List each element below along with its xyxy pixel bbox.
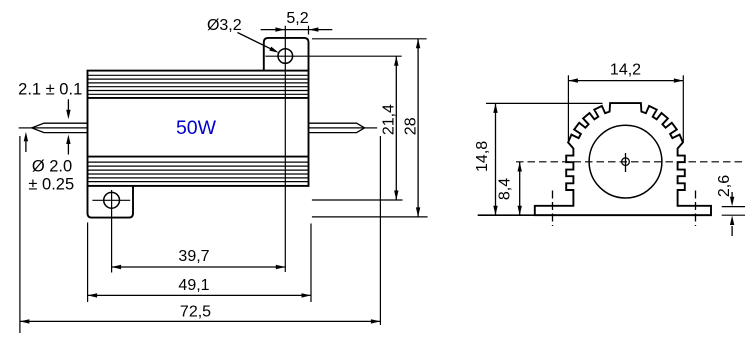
bottom tab hole <box>104 192 120 208</box>
center hole <box>622 158 630 166</box>
left mounting hole dashed centerline <box>552 191 554 227</box>
base plate bottom line extended <box>478 214 711 216</box>
left lead centerline stub <box>19 127 32 129</box>
dimension 2,6 arrows <box>716 175 734 236</box>
dimension 72,5 <box>20 303 381 323</box>
left lead midline <box>32 127 88 129</box>
top tab hole <box>278 49 293 64</box>
arrow up to lead bottom <box>66 135 70 155</box>
resistor core circle <box>589 125 662 198</box>
extension line body left <box>87 223 89 303</box>
arrow down to lead top <box>66 99 70 119</box>
dimension 8,4 <box>496 162 522 215</box>
left lead <box>32 123 88 132</box>
svg-text:5,2: 5,2 <box>286 10 308 27</box>
resistor body outline <box>88 71 309 186</box>
dimension 49,1 <box>88 277 311 298</box>
svg-text:49,1: 49,1 <box>178 277 209 294</box>
bottom mounting tab <box>88 186 134 218</box>
body top fins <box>88 75 309 98</box>
dimension 28 <box>402 39 420 217</box>
top mounting tab <box>264 38 309 71</box>
svg-text:2,6: 2,6 <box>716 175 733 197</box>
extension line 14,2 right <box>682 75 684 142</box>
dimension 5,2 right arrow <box>309 27 332 31</box>
extension line left lead tip <box>19 136 21 333</box>
dimension 14,2 <box>568 62 683 83</box>
bottom hole vertical centerline / 39,7 extension <box>111 190 113 273</box>
extension line 14,2 left <box>567 75 569 140</box>
leader arrow to top hole <box>238 33 279 53</box>
dimension 14,8 <box>474 103 498 215</box>
extension line base top right <box>722 206 745 208</box>
svg-text:Ø3,2: Ø3,2 <box>207 17 242 34</box>
right lead <box>309 123 365 132</box>
body bottom fins <box>88 157 309 182</box>
horizontal dashed centerline <box>516 161 746 163</box>
svg-text:Ø 2.0: Ø 2.0 <box>32 158 72 176</box>
extension line body right <box>310 224 312 303</box>
svg-text:8,4: 8,4 <box>496 178 513 200</box>
right mounting hole dashed centerline <box>695 191 697 227</box>
svg-text:28: 28 <box>402 117 419 135</box>
right lead midline <box>309 127 365 129</box>
top hole vertical centerline / 39,7 extension <box>284 26 286 272</box>
dimension 21,4 <box>381 56 399 200</box>
dimension 5,2 left arrow <box>261 27 309 31</box>
right lead centerline stub <box>365 127 378 129</box>
extension line bottom hole center right <box>312 199 403 201</box>
end view housing profile with cooling fins <box>535 103 711 215</box>
top hole horizontal centerline / 21,4 extension <box>265 55 401 57</box>
svg-text:72,5: 72,5 <box>180 303 211 320</box>
extension line tab top <box>312 38 427 40</box>
svg-text:50W: 50W <box>176 117 217 139</box>
svg-text:± 0.25: ± 0.25 <box>28 176 74 194</box>
svg-text:21,4: 21,4 <box>381 104 398 135</box>
svg-text:2.1 ± 0.1: 2.1 ± 0.1 <box>18 81 82 99</box>
bottom hole horizontal centerline <box>92 199 130 201</box>
extension line right lead tip <box>379 136 381 325</box>
extension line 14,8 top <box>486 102 603 104</box>
svg-text:14,8: 14,8 <box>474 141 491 172</box>
extension line tab bottom right <box>312 216 428 218</box>
arrow up to lead tip <box>24 132 28 152</box>
center hole vertical tick <box>625 153 627 172</box>
dimension 39,7 <box>112 248 286 269</box>
extension line base bottom right <box>722 214 745 216</box>
svg-text:39,7: 39,7 <box>178 248 209 265</box>
dimension 5,2 right extension tick <box>308 26 310 35</box>
svg-text:14,2: 14,2 <box>610 62 641 79</box>
